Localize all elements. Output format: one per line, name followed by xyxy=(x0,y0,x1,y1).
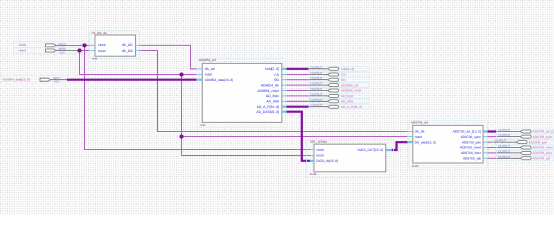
output pin AD9708_ad_[13..0] xyxy=(497,128,554,134)
svg-text:AD9854_data[15..0]: AD9854_data[15..0] xyxy=(205,78,233,82)
svg-text:reset: reset xyxy=(19,49,26,53)
svg-text:AD9708_ctrl: AD9708_ctrl xyxy=(411,121,428,125)
wire reset net: pin to block U1 xyxy=(80,50,91,52)
wire U2 output AD_A_P[31..0] xyxy=(287,106,310,108)
svg-text:AD_byte: AD_byte xyxy=(266,94,279,98)
svg-text:AD9708_adi: AD9708_adi xyxy=(533,157,551,161)
output pin AD9708_sync xyxy=(497,133,554,139)
svg-text:AD9854_clk: AD9854_clk xyxy=(341,83,359,87)
svg-text:CS: CS xyxy=(274,73,279,77)
wire clk_DA net: U1 output to U4 clk_da xyxy=(140,51,408,132)
output pin AD9708_inter xyxy=(497,149,554,155)
svg-text:AD9854_reset: AD9854_reset xyxy=(257,89,279,93)
wire clk_AD net: U1 output to U2 clk_ad xyxy=(140,45,198,68)
svg-text:AD9708_inter: AD9708_inter xyxy=(533,151,553,155)
svg-text:clk_DA: clk_DA xyxy=(122,49,133,53)
input pin reset xyxy=(14,48,81,55)
svg-text:AD9708_ad_[13..0]: AD9708_ad_[13..0] xyxy=(533,130,554,134)
wire U2 output RD xyxy=(287,79,310,81)
svg-text:AD9854_clk: AD9854_clk xyxy=(261,83,280,87)
svg-text:hold[2..0]: hold[2..0] xyxy=(341,67,354,71)
output pin hold[2..0] xyxy=(309,65,369,71)
svg-text:clock: clock xyxy=(19,43,27,47)
wire U2 output AD9854_reset xyxy=(287,90,310,92)
svg-text:clock: clock xyxy=(316,148,324,152)
output pin AD9854_reset xyxy=(309,87,369,93)
svg-text:AD_byte: AD_byte xyxy=(341,94,353,98)
output pin AD9708_pdn xyxy=(493,139,554,145)
wire U4 output AD9708_ad_[13..0] xyxy=(488,130,497,132)
svg-text:AD9854_data[15..0]: AD9854_data[15..0] xyxy=(3,77,30,81)
junction reset net at (181,74.2) xyxy=(179,72,183,76)
block U4 AD9708_ctrl xyxy=(408,121,488,168)
svg-text:AD_A_P[31..0]: AD_A_P[31..0] xyxy=(341,105,362,109)
wire U4 output AD9708_sync xyxy=(488,136,497,138)
block U3 SHL_xinhao xyxy=(307,139,394,177)
wire clock net: pin to block U1 xyxy=(80,44,91,46)
svg-text:clk_da: clk_da xyxy=(415,130,425,134)
svg-text:clock: clock xyxy=(98,43,106,47)
svg-text:inst: inst xyxy=(201,123,206,127)
svg-text:AD9854_reset: AD9854_reset xyxy=(341,89,361,93)
bus AD9854_data: pin to U2 xyxy=(67,79,198,81)
svg-text:DA_data[15..0]: DA_data[15..0] xyxy=(415,140,436,144)
svg-text:inst: inst xyxy=(92,56,97,60)
block U2 AD9854_ctrl xyxy=(197,58,287,127)
svg-text:reset: reset xyxy=(98,49,106,53)
wire U4 output AD9708_inter xyxy=(488,152,497,154)
svg-text:AD_A00: AD_A00 xyxy=(266,100,279,104)
wire reset net: branch to U4 reset xyxy=(182,136,409,138)
svg-text:AD9708_inter: AD9708_inter xyxy=(461,151,482,155)
svg-text:inst2: inst2 xyxy=(412,164,419,168)
svg-text:AD9708_ad_[13..0]: AD9708_ad_[13..0] xyxy=(453,130,481,134)
svg-text:reset: reset xyxy=(205,72,213,76)
svg-text:VCC: VCC xyxy=(54,81,60,84)
svg-text:AD9708_sync: AD9708_sync xyxy=(460,135,481,139)
svg-text:AD_A00: AD_A00 xyxy=(341,100,353,104)
wire U2 output AD_byte xyxy=(287,95,310,97)
wire clock net: vertical drop to U3 clock xyxy=(85,45,311,149)
wire U4 output AD9708_reset xyxy=(488,147,497,149)
output pin AD9854_clk xyxy=(309,82,369,88)
wire U4 output AD9708_adi xyxy=(488,157,497,159)
svg-text:inst3: inst3 xyxy=(310,172,317,176)
wire U2 output AD9854_clk xyxy=(287,84,310,86)
svg-text:AD9708_pdn: AD9708_pdn xyxy=(462,140,481,144)
svg-text:clk_AD_da: clk_AD_da xyxy=(92,31,107,35)
output pin AD_byte xyxy=(309,92,369,98)
svg-text:DATA_OUT[15..0]: DATA_OUT[15..0] xyxy=(358,148,384,152)
wire U2 output AD_A00 xyxy=(287,100,310,102)
svg-text:VCC: VCC xyxy=(60,51,66,54)
wire U2 output hold[2..0] xyxy=(287,68,310,70)
block U1 clk_AD_da xyxy=(90,31,140,61)
wire U4 output AD9708_pdn xyxy=(488,141,493,143)
junction reset net at (79,50.6) xyxy=(77,48,81,52)
output pin AD9708_reset xyxy=(497,144,554,150)
bus AD_DATA[9..0]: U2 to U3 DATA_IN xyxy=(286,112,310,161)
svg-text:DATA_IN[15..0]: DATA_IN[15..0] xyxy=(316,159,338,163)
svg-text:hold[2..0]: hold[2..0] xyxy=(265,67,279,71)
svg-text:AD_DATA[9..0]: AD_DATA[9..0] xyxy=(256,110,279,114)
output pin AD9708_adi xyxy=(497,155,554,161)
svg-text:reset: reset xyxy=(415,135,423,139)
input pin AD9854_data[15..0] xyxy=(2,75,67,83)
svg-text:AD9708_reset: AD9708_reset xyxy=(533,146,553,150)
bus DATA_OUT[15..0]: U3 to U4 DA_data xyxy=(392,142,409,150)
svg-text:AD9708_adi: AD9708_adi xyxy=(463,157,481,161)
wire reset net: vertical from U2 reset branch down xyxy=(181,75,183,156)
svg-text:AD_A_P[31..0]: AD_A_P[31..0] xyxy=(257,105,279,109)
junction reset net at (181,136.8) xyxy=(179,134,183,138)
wire reset net: vertical drop to U2 reset xyxy=(80,51,198,75)
svg-text:AD9708_sync: AD9708_sync xyxy=(533,135,553,139)
svg-text:AD9854_ctrl: AD9854_ctrl xyxy=(199,58,216,62)
svg-text:RD: RD xyxy=(274,78,279,82)
wire reset net: to U3 reset xyxy=(182,155,311,157)
svg-text:RD: RD xyxy=(341,78,346,82)
output pin AD_A_P[31..0] xyxy=(309,103,369,109)
wire U2 output CS xyxy=(287,74,310,76)
output pin RD xyxy=(309,76,369,82)
svg-text:AD9708_reset: AD9708_reset xyxy=(460,146,481,150)
output pin CS xyxy=(309,71,369,77)
input pin clock xyxy=(14,42,81,50)
svg-text:CS: CS xyxy=(341,73,345,77)
svg-text:clk_ad: clk_ad xyxy=(205,67,215,71)
junction clock net at (84,45) xyxy=(82,43,86,47)
svg-text:AD9708_pdn: AD9708_pdn xyxy=(529,140,548,144)
output pin AD_A00 xyxy=(309,98,369,104)
svg-text:reset: reset xyxy=(316,154,324,158)
svg-text:SHL_xinhao: SHL_xinhao xyxy=(310,140,327,144)
svg-text:clk_AD: clk_AD xyxy=(122,43,133,47)
